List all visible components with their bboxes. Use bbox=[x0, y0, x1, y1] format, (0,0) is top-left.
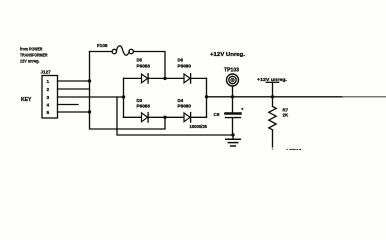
svg-text:from POWER: from POWER bbox=[20, 47, 43, 52]
svg-text:4: 4 bbox=[47, 102, 50, 108]
svg-text:D4: D4 bbox=[178, 98, 184, 103]
svg-text:D6: D6 bbox=[178, 58, 184, 63]
svg-text:TP103: TP103 bbox=[224, 68, 239, 74]
svg-text:J127: J127 bbox=[41, 70, 52, 75]
svg-text:LED13: LED13 bbox=[287, 148, 302, 150]
svg-text:5: 5 bbox=[47, 110, 50, 116]
svg-text:P6083: P6083 bbox=[137, 104, 151, 109]
svg-text:D5: D5 bbox=[137, 58, 143, 63]
svg-text:F109: F109 bbox=[97, 43, 108, 48]
svg-text:3: 3 bbox=[47, 95, 50, 101]
svg-text:P6083: P6083 bbox=[137, 64, 151, 69]
svg-text:12V unreg.: 12V unreg. bbox=[20, 59, 40, 64]
svg-text:+12V Unreg.: +12V Unreg. bbox=[210, 52, 246, 58]
svg-text:+12V unreg.: +12V unreg. bbox=[257, 77, 287, 82]
svg-text:KEY: KEY bbox=[21, 97, 32, 103]
svg-text:TRANSFORMER: TRANSFORMER bbox=[20, 53, 48, 58]
svg-text:P6080: P6080 bbox=[178, 104, 192, 109]
svg-text:2: 2 bbox=[47, 87, 50, 93]
svg-text:1: 1 bbox=[47, 79, 50, 85]
svg-text:P6080: P6080 bbox=[178, 64, 192, 69]
svg-text:10000/25: 10000/25 bbox=[190, 124, 208, 129]
svg-text:2K: 2K bbox=[283, 113, 289, 118]
svg-text:C8: C8 bbox=[214, 112, 220, 117]
svg-text:D3: D3 bbox=[137, 98, 143, 103]
